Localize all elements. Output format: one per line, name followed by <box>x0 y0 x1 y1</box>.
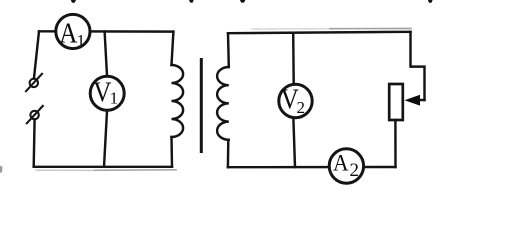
voltmeter V2 <box>279 84 312 117</box>
inductor L1 (transformer primary winding, 4 turns) <box>172 65 184 137</box>
wire: V2 branch lower <box>293 119 295 167</box>
wire: rheostat bottom lead <box>394 120 397 167</box>
terminal X2 (input terminal, circle with slash) <box>27 106 43 123</box>
wire: wiper arrow shaft <box>419 99 425 101</box>
terminal X1 (input terminal, circle with slash) <box>26 74 42 91</box>
wire: primary top stub <box>172 32 174 65</box>
wire: V2 branch upper <box>292 33 295 84</box>
label A1 <box>59 17 85 50</box>
ammeter A1 <box>56 14 90 48</box>
wire: right loop bottom <box>228 166 396 169</box>
top artifact mark 3 <box>240 0 245 3</box>
ammeter A2 <box>329 149 363 183</box>
top artifact mark 2 <box>189 0 194 3</box>
wire: primary bottom stub <box>170 137 173 167</box>
wire: left loop left side lower segment <box>32 119 35 167</box>
transformer core (iron core bar) <box>200 58 203 153</box>
label A2 <box>333 150 359 181</box>
wiper arrowhead <box>405 95 421 106</box>
svg-text:A: A <box>333 150 349 176</box>
wire: left loop bottom <box>34 166 172 168</box>
wire: rheostat wiper feed (top right jog) <box>411 32 425 100</box>
wire: V1 branch upper <box>105 31 107 75</box>
wire: left loop top <box>39 30 173 33</box>
wire: V1 branch lower <box>104 111 107 167</box>
wire: secondary bottom stub <box>227 140 230 167</box>
inductor L2 (transformer secondary winding, 4 turns) <box>217 67 229 140</box>
wire: right loop top <box>228 32 411 33</box>
resistor R (rheostat body) <box>389 84 403 120</box>
top artifact mark 1 <box>71 0 76 3</box>
svg-text:2: 2 <box>297 98 306 117</box>
scan shadow below left loop bottom wire <box>36 169 95 171</box>
scan shadow above right loop top wire <box>252 28 330 30</box>
wire: left loop left side upper segment <box>34 31 39 79</box>
scan smudge at left edge <box>0 166 3 174</box>
label V2 <box>281 83 305 116</box>
svg-text:A: A <box>59 17 78 49</box>
svg-text:2: 2 <box>350 160 360 181</box>
svg-text:1: 1 <box>77 31 86 50</box>
svg-text:1: 1 <box>110 89 119 108</box>
top artifact mark 4 <box>428 0 433 3</box>
label V1 <box>93 76 118 108</box>
voltmeter V1 <box>90 76 124 110</box>
wire: secondary top stub <box>227 33 230 67</box>
